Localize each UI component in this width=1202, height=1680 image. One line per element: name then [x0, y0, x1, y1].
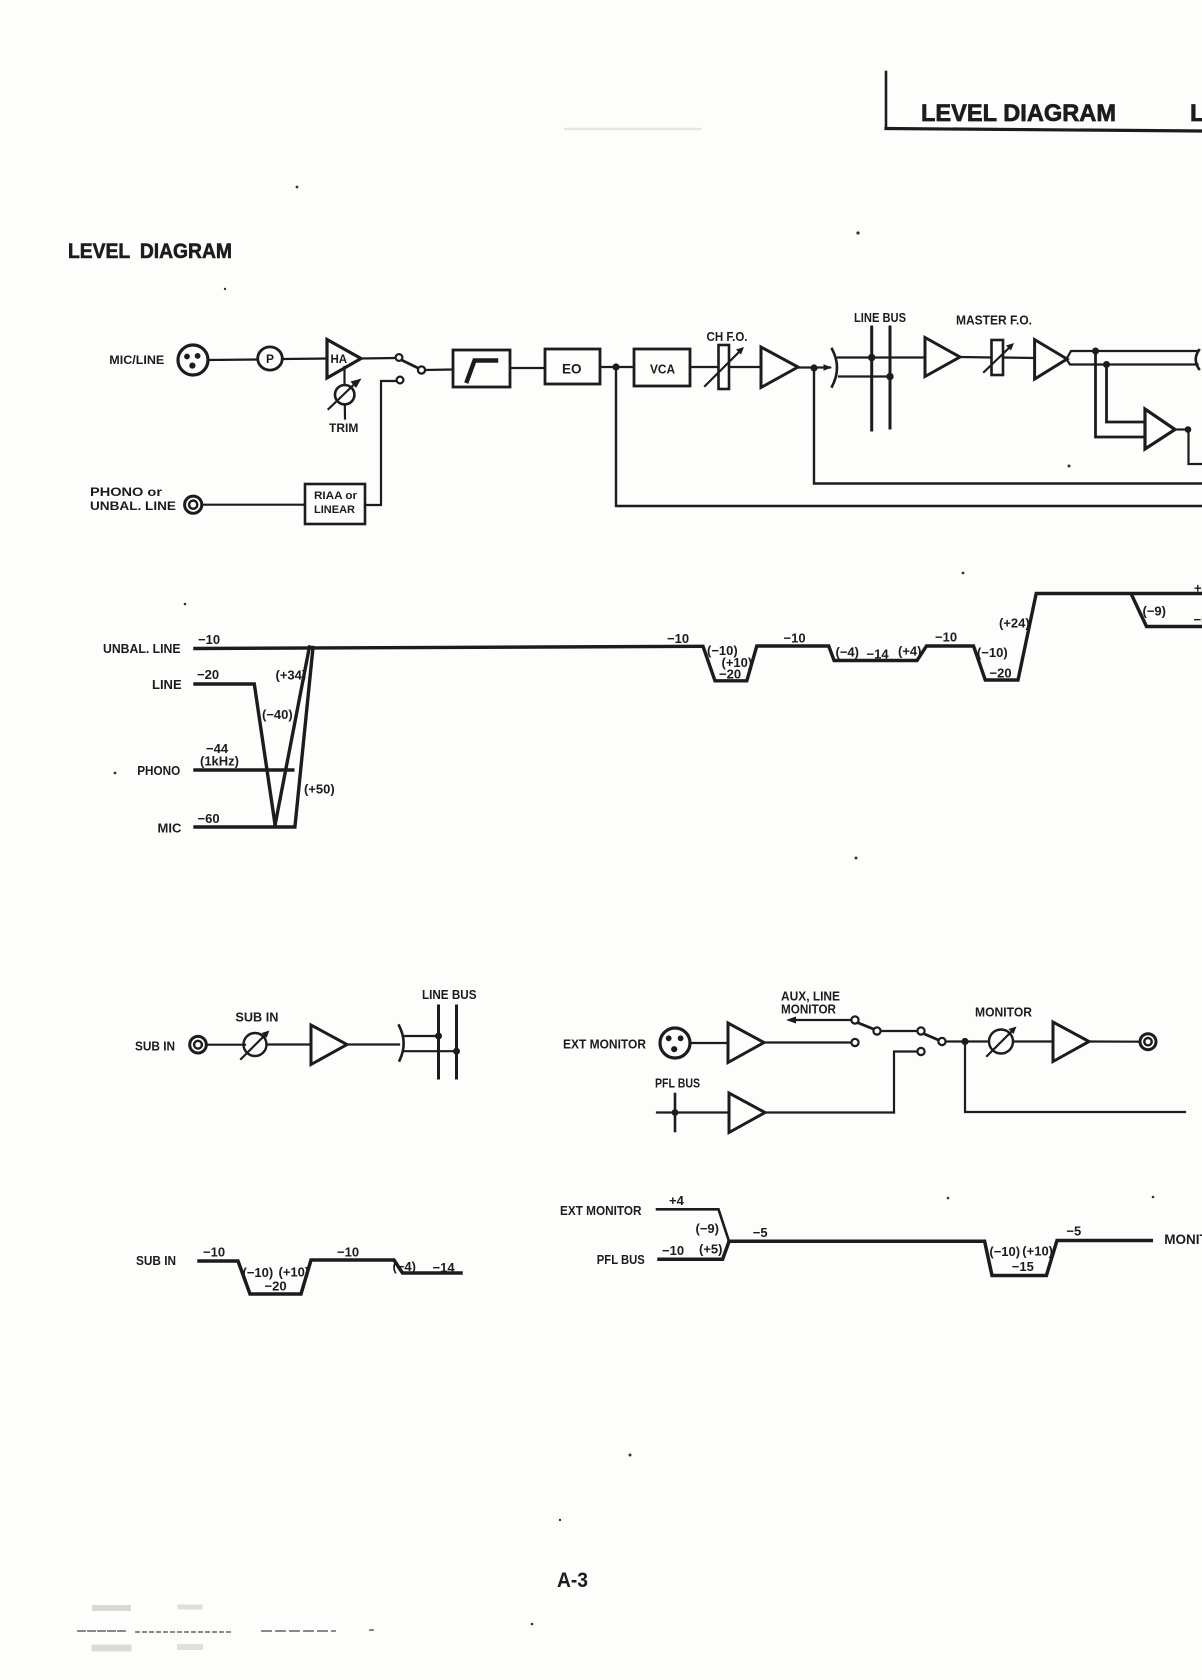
wire pfl contact to pfl amp — [894, 1052, 918, 1113]
scan artifacts: faint bottom dashes — [78, 129, 700, 1648]
arrow to aux line monitor — [786, 1017, 851, 1024]
svg-text:TRIM: TRIM — [329, 421, 358, 435]
bus entry arc — [832, 349, 837, 387]
wire pot to monitor amp — [1013, 1040, 1053, 1042]
svg-text:LEVEL DIAGRAM: LEVEL DIAGRAM — [68, 239, 232, 263]
svg-text:UNBAL. LINE: UNBAL. LINE — [103, 641, 181, 656]
connector J1 XLR MIC/LINE — [178, 345, 208, 375]
wire RIAA to switch lower contact — [365, 381, 396, 505]
line bus vertical 1 (sub) — [437, 1006, 440, 1078]
line bus vertical 1 — [870, 327, 873, 430]
wire XLR to ext monitor amp — [690, 1042, 728, 1044]
connector RCA sub in — [190, 1036, 207, 1053]
gain labels (-10)(+10) -20 (sub) — [243, 1265, 310, 1294]
svg-text:SUB IN: SUB IN — [235, 1011, 278, 1025]
svg-text:PFL BUS: PFL BUS — [597, 1252, 645, 1267]
svg-text:−10: −10 — [203, 1245, 225, 1260]
wire master fader to master amp — [1003, 356, 1034, 359]
svg-text:−10: −10 — [935, 630, 957, 645]
svg-text:MONITOR: MONITOR — [975, 1006, 1032, 1020]
level trace UNBAL. LINE main — [195, 594, 1202, 681]
node on line bus 2 — [886, 373, 893, 380]
connector RCA phono — [185, 496, 202, 513]
svg-text:(−4): (−4) — [836, 645, 859, 660]
svg-text:−14: −14 — [867, 647, 890, 662]
node after EO — [612, 363, 619, 370]
trim pot — [329, 367, 362, 419]
svg-text:−10: −10 — [337, 1245, 359, 1260]
svg-text:EXT MONITOR: EXT MONITOR — [560, 1203, 642, 1218]
svg-text:RIAA or: RIAA or — [314, 490, 358, 502]
label PHONO or UNBAL. LINE — [90, 487, 176, 513]
svg-text:(+24): (+24) — [999, 616, 1030, 631]
gain labels (-4) -14 (sub) — [393, 1259, 456, 1275]
svg-text:−20: −20 — [197, 667, 219, 682]
gain labels (-10)(+10) -15 (monitor) — [989, 1244, 1053, 1275]
gain labels (-4) -14 (+4) — [836, 644, 922, 662]
wire bus amp to master fader — [960, 356, 992, 359]
wire filter to EO — [510, 367, 545, 369]
svg-text:P: P — [266, 352, 274, 366]
EQ box EO — [545, 349, 600, 384]
bus arc at page edge — [1196, 350, 1199, 369]
wire ext monitor amp to switch contact — [764, 1041, 851, 1043]
wire sub amp output with node — [1175, 426, 1202, 464]
svg-text:(+10): (+10) — [1022, 1244, 1053, 1259]
wire from EO node down and right — [616, 370, 1202, 506]
svg-text:(+34): (+34) — [276, 668, 307, 683]
wire bottom stub to line bus 2 — [404, 1050, 457, 1052]
svg-text:(+5): (+5) — [699, 1242, 722, 1257]
wire monitor node down and right — [965, 1042, 1185, 1113]
svg-text:−10: −10 — [198, 632, 220, 647]
svg-text:(+50): (+50) — [304, 782, 335, 797]
wire VCA to channel amp through fader — [690, 366, 761, 368]
svg-text:(+4): (+4) — [898, 644, 921, 659]
level trace monitor merged — [729, 1241, 1151, 1276]
sub in amp — [311, 1025, 347, 1065]
level trace branch (-9) to -5 — [1131, 594, 1202, 627]
svg-text:VCA: VCA — [650, 362, 676, 377]
monitor level pot — [987, 1027, 1017, 1057]
svg-text:LINE BUS: LINE BUS — [422, 987, 477, 1002]
svg-text:PFL BUS: PFL BUS — [655, 1077, 700, 1091]
wire from channel amp node down and right — [814, 371, 1202, 484]
svg-text:−20: −20 — [990, 666, 1012, 681]
output pair bottom wire — [1067, 360, 1198, 365]
wire P to HA — [282, 357, 327, 360]
node on bottom output wire — [1103, 361, 1110, 368]
svg-text:SUB IN: SUB IN — [136, 1253, 176, 1268]
node on top output wire — [1092, 348, 1099, 355]
gain labels (-10)(+10)-20 at fader dip — [707, 643, 752, 682]
svg-text:(−9): (−9) — [1143, 604, 1166, 619]
sub in level pot — [241, 1031, 270, 1060]
svg-text:(−40): (−40) — [262, 707, 293, 722]
svg-text:(−10): (−10) — [977, 645, 1008, 660]
wire RCA to sub pot — [207, 1044, 246, 1046]
level trace LINE with -40 drop — [195, 684, 275, 825]
channel amp — [761, 347, 798, 388]
svg-text:A-3: A-3 — [557, 1569, 588, 1592]
svg-text:+4: +4 — [1194, 581, 1202, 596]
monitor amp — [1053, 1022, 1089, 1062]
output pair top wire — [1067, 351, 1198, 358]
svg-text:−20: −20 — [265, 1279, 287, 1294]
pad P — [258, 347, 283, 370]
svg-text:−5: −5 — [1066, 1224, 1081, 1239]
wire switch to monitor pot with node — [946, 1038, 990, 1045]
bus amp — [925, 338, 960, 377]
RIAA equalizer box — [305, 484, 365, 524]
connector RCA monitor out — [1140, 1034, 1156, 1050]
svg-text:(−10): (−10) — [989, 1244, 1020, 1259]
svg-text:−5: −5 — [753, 1225, 768, 1240]
line bus vertical 2 — [889, 327, 892, 428]
wire bus top stub to bus amp — [838, 356, 925, 358]
wire drop from top node to sub amp — [1096, 351, 1146, 437]
svg-text:(−9): (−9) — [696, 1221, 719, 1236]
svg-text:AUX, LINE: AUX, LINE — [781, 990, 840, 1004]
svg-text:LINEAR: LINEAR — [314, 504, 355, 516]
op-amp HA — [327, 340, 361, 379]
switch S1 input select — [396, 354, 426, 383]
svg-text:MONITOR: MONITOR — [781, 1003, 836, 1017]
svg-text:−10: −10 — [662, 1243, 684, 1258]
svg-text:HA: HA — [331, 354, 348, 366]
level trace EXT MONITOR — [657, 1209, 729, 1241]
wire switch to low-cut filter — [425, 368, 453, 371]
VCA box — [634, 349, 690, 386]
node line bus 2 — [453, 1048, 460, 1055]
node on line bus 1 — [868, 354, 875, 361]
fader MASTER F.O. — [984, 340, 1014, 375]
switch monitor select — [851, 1016, 945, 1055]
svg-text:MIC: MIC — [158, 821, 182, 836]
svg-text:LINE: LINE — [152, 677, 182, 692]
svg-text:UNBAL. LINE: UNBAL. LINE — [90, 501, 176, 513]
wire pot to sub amp — [267, 1043, 312, 1045]
gain labels (-10) -20 (+24) — [977, 616, 1030, 681]
low-cut filter box — [453, 350, 510, 387]
svg-text:−20: −20 — [719, 667, 741, 682]
svg-text:−10: −10 — [667, 631, 689, 646]
wire monitor amp to output — [1089, 1040, 1140, 1042]
svg-text:MASTER F.O.: MASTER F.O. — [956, 313, 1032, 328]
level trace +34 rise — [275, 647, 309, 825]
pfl bus cross — [657, 1094, 729, 1131]
fader CH F.O. — [705, 345, 744, 389]
svg-text:(+10): (+10) — [279, 1265, 310, 1280]
sub output amp — [1145, 409, 1175, 449]
connector XLR ext monitor — [660, 1028, 690, 1058]
svg-text:LE: LE — [1190, 100, 1202, 127]
wire top stub to line bus 1 — [404, 1035, 439, 1037]
svg-text:PHONO or: PHONO or — [90, 487, 163, 499]
level trace PFL BUS — [659, 1242, 729, 1260]
svg-text:LEVEL DIAGRAM: LEVEL DIAGRAM — [921, 100, 1116, 127]
wire pfl amp to switch — [765, 1111, 894, 1113]
level trace SUB IN — [199, 1260, 461, 1294]
wire sub amp to bus arc — [347, 1043, 399, 1045]
pfl amp — [729, 1093, 765, 1133]
level trace PHONO — [195, 768, 293, 771]
svg-text:−10: −10 — [784, 631, 806, 646]
node line bus 1 — [435, 1033, 442, 1040]
svg-text:LINE BUS: LINE BUS — [854, 310, 906, 325]
svg-text:SUB IN: SUB IN — [135, 1040, 175, 1054]
svg-text:−60: −60 — [198, 811, 220, 826]
svg-text:EO: EO — [562, 362, 582, 377]
wire amp to bus arc with node — [798, 364, 832, 371]
svg-text:MIC/LINE: MIC/LINE — [109, 353, 164, 367]
wire bus bottom stub — [839, 375, 890, 377]
wire EO to VCA — [600, 366, 634, 368]
svg-text:CH F.O.: CH F.O. — [707, 330, 748, 344]
wire RCA to RIAA box — [202, 504, 305, 506]
level trace MIC with +50 rise — [195, 648, 313, 828]
svg-text:−14: −14 — [433, 1260, 456, 1275]
bus entry arc (sub in) — [399, 1026, 404, 1061]
header box border — [886, 72, 1202, 131]
line bus vertical 2 (sub) — [455, 1006, 458, 1078]
svg-text:−5: −5 — [1194, 612, 1202, 627]
svg-text:+4: +4 — [669, 1193, 685, 1208]
svg-text:PHONO: PHONO — [137, 763, 180, 778]
wire HA to switch — [361, 357, 395, 360]
svg-text:−15: −15 — [1012, 1259, 1034, 1274]
scan specks — [114, 186, 1155, 1626]
label AUX, LINE MONITOR — [781, 990, 840, 1017]
svg-text:(−4): (−4) — [393, 1259, 416, 1274]
svg-text:MONITOR: MONITOR — [1164, 1232, 1202, 1247]
wire J1 to pad P — [208, 358, 258, 361]
level value -44 (1kHz) — [200, 741, 239, 769]
master amp — [1035, 340, 1067, 379]
ext monitor amp — [728, 1023, 764, 1063]
svg-text:EXT MONITOR: EXT MONITOR — [563, 1038, 646, 1052]
wire drop from bottom node to sub amp — [1107, 365, 1146, 423]
svg-text:(1kHz): (1kHz) — [200, 754, 239, 769]
